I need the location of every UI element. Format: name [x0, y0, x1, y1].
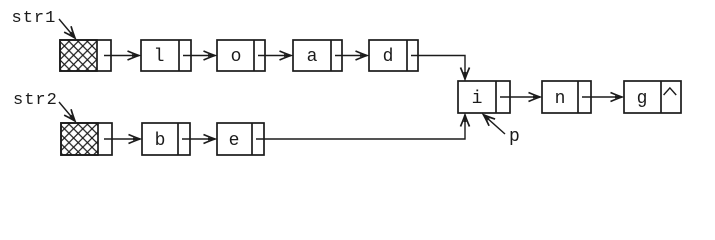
svg-text:i: i — [472, 89, 483, 109]
svg-text:a: a — [307, 47, 318, 67]
svg-text:l: l — [154, 47, 165, 67]
svg-text:str2: str2 — [13, 91, 58, 110]
svg-text:str1: str1 — [12, 9, 57, 28]
svg-text:p: p — [509, 127, 520, 147]
svg-text:n: n — [555, 89, 566, 109]
svg-text:g: g — [637, 89, 648, 109]
svg-text:e: e — [229, 131, 240, 151]
svg-text:b: b — [155, 131, 166, 151]
svg-text:d: d — [383, 47, 394, 67]
svg-text:o: o — [231, 47, 242, 67]
